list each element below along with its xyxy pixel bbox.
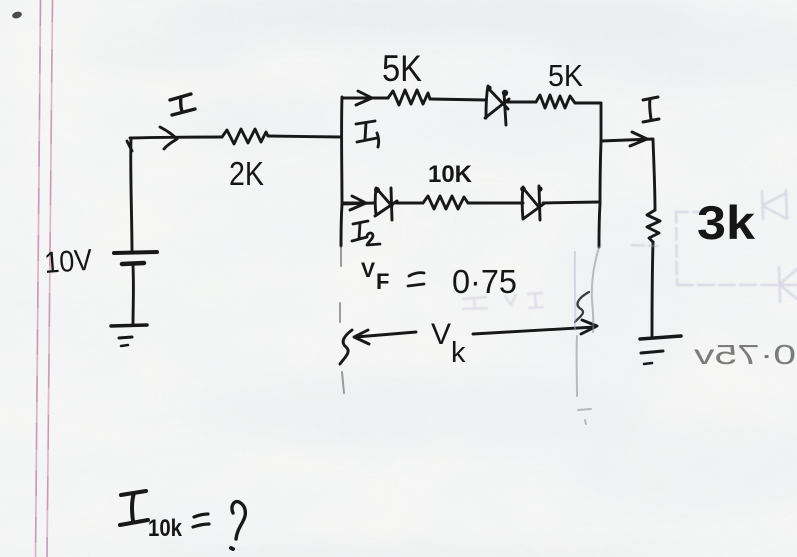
svg-text:2K: 2K — [229, 155, 264, 192]
battery V1 plate short — [122, 263, 144, 264]
bleedthrough marks — [463, 190, 797, 309]
resistor 5K first — [388, 90, 430, 105]
Vk right arrow — [473, 320, 597, 334]
equals of VF (drawn) — [408, 273, 424, 286]
diode D1 — [485, 86, 509, 125]
Vk left hook — [340, 330, 352, 364]
dashed guide left — [340, 247, 344, 393]
arrow I (left) — [160, 127, 177, 149]
node: left rail of diode network — [341, 97, 342, 246]
label I1 (drawn) — [356, 121, 379, 147]
dashed guide right (faded rail) — [575, 247, 599, 424]
svg-text:0·75v: 0·75v — [694, 339, 796, 370]
wire: source top wire — [127, 136, 341, 151]
bleed text mid — [463, 293, 543, 309]
resistor 5K second — [536, 95, 575, 108]
svg-text:5K: 5K — [382, 48, 422, 89]
wire: battery to ground — [132, 265, 135, 325]
ground (left) — [111, 325, 147, 326]
margin line left — [36, 0, 41, 557]
svg-text:10k: 10k — [148, 515, 183, 542]
Vk right hook — [575, 292, 589, 322]
resistor 10K — [423, 196, 468, 209]
label big I of I10k (drawn) — [120, 491, 148, 525]
wire: output with arrow I — [601, 132, 653, 146]
bleed wire vertical — [632, 211, 708, 284]
bleed diode top right — [762, 190, 787, 219]
wire: 3K to ground — [652, 242, 653, 336]
wire: bottom branch — [342, 202, 599, 204]
label I right (drawn) — [643, 97, 659, 122]
svg-text:10V: 10V — [43, 244, 93, 280]
battery V1 plate long — [114, 252, 157, 253]
resistor R 2K — [222, 129, 268, 144]
arrow I1 head — [356, 91, 372, 105]
ink speck — [11, 11, 22, 20]
wire: top branch — [342, 98, 601, 103]
label I top-left (drawn) — [170, 94, 195, 115]
svg-text:0·75: 0·75 — [452, 263, 517, 300]
question mark — [232, 502, 245, 539]
ground (right) — [640, 336, 681, 339]
bleed diode lower right — [779, 267, 797, 302]
diode D3 — [522, 186, 545, 220]
arrow I2 head — [344, 196, 366, 210]
wire: down to 3K — [653, 140, 655, 210]
margin line right — [47, 0, 53, 557]
resistor 3K — [647, 210, 660, 242]
svg-text:10K: 10K — [428, 161, 473, 188]
wire: left vertical to battery — [131, 139, 132, 252]
svg-text:5K: 5K — [548, 58, 583, 93]
wire: right rail top — [599, 103, 601, 247]
diode D2 — [375, 188, 397, 220]
equals of I10k (drawn) — [193, 514, 209, 527]
bleed wire horizontal — [677, 284, 797, 286]
label I2 (drawn) — [352, 221, 380, 245]
svg-text:3k: 3k — [697, 196, 756, 249]
Vk left arrow — [354, 330, 416, 344]
